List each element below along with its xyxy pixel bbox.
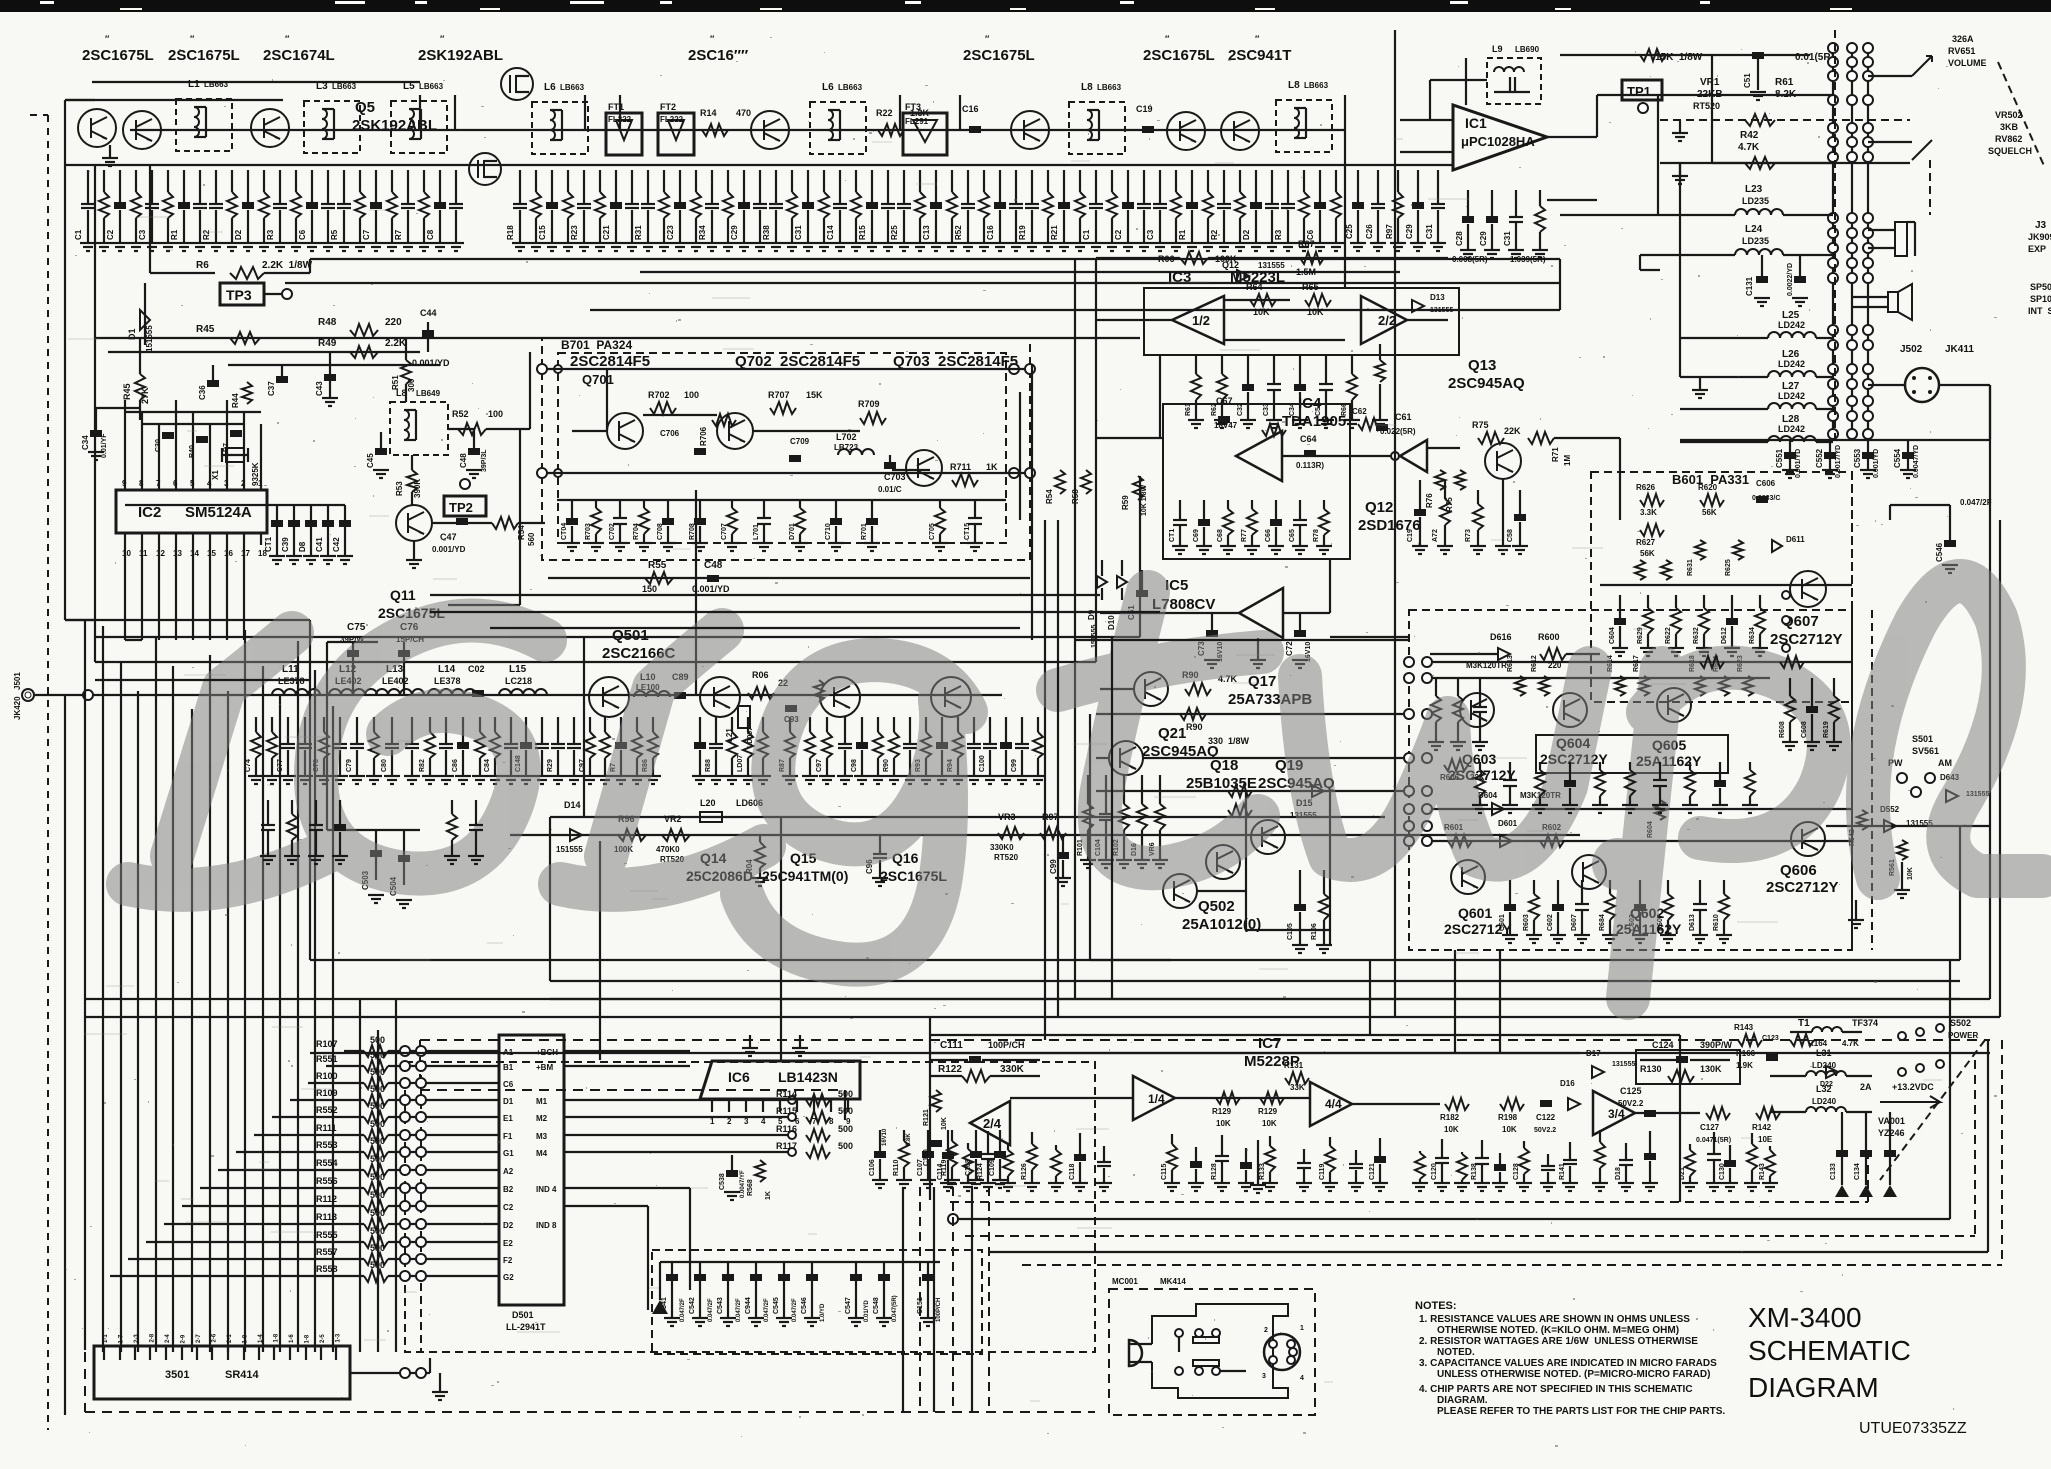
svg-text:R18: R18 (506, 225, 515, 240)
svg-text:2: 2 (1264, 1327, 1268, 1334)
svg-text:Q701: Q701 (582, 372, 614, 387)
svg-text:2-1: 2-1 (227, 1334, 233, 1343)
svg-text:330K: 330K (1000, 1064, 1025, 1075)
svg-text:R22: R22 (876, 108, 893, 118)
svg-text:0.047/2F: 0.047/2F (736, 1298, 742, 1322)
svg-text:C14: C14 (826, 225, 835, 240)
svg-text:2-4: 2-4 (165, 1334, 171, 1343)
svg-text:R107: R107 (316, 1039, 338, 1049)
svg-text:1-6: 1-6 (289, 1334, 295, 1343)
svg-text:R133: R133 (1259, 1163, 1266, 1180)
svg-text:1-8: 1-8 (305, 1334, 311, 1343)
svg-text:C66: C66 (1265, 529, 1272, 542)
svg-text:C2: C2 (106, 229, 115, 240)
svg-text:C100: C100 (979, 755, 986, 772)
svg-text:0.0022/YD: 0.0022/YD (1787, 263, 1794, 296)
svg-text:2-6: 2-6 (212, 1333, 218, 1342)
svg-text:470: 470 (736, 108, 751, 118)
svg-text:C31: C31 (1425, 224, 1434, 239)
svg-text:JK909: JK909 (2028, 232, 2051, 242)
svg-text:0.008(5R): 0.008(5R) (1452, 255, 1488, 264)
svg-text:2-7: 2-7 (196, 1334, 202, 1343)
svg-text:C02: C02 (468, 664, 485, 674)
svg-text:R622: R622 (1665, 627, 1672, 644)
svg-text:VA001: VA001 (1878, 1116, 1905, 1126)
svg-text:0.047(5R): 0.047(5R) (892, 1295, 898, 1322)
svg-text:LB663: LB663 (838, 83, 863, 92)
svg-text:R128: R128 (1211, 1163, 1218, 1180)
svg-text:10K: 10K (1502, 1125, 1517, 1134)
svg-text:R551: R551 (316, 1054, 338, 1064)
svg-text:2SK192ABL: 2SK192ABL (418, 47, 503, 64)
svg-text:VOLUME: VOLUME (1948, 58, 1987, 68)
svg-text:326A: 326A (1952, 34, 1974, 44)
svg-text:EXP SP: EXP SP (2028, 244, 2051, 254)
svg-text:R25: R25 (890, 225, 899, 240)
svg-text:R553: R553 (316, 1140, 338, 1150)
svg-text:Q501: Q501 (612, 627, 649, 644)
svg-text:″: ″ (710, 34, 715, 44)
svg-text:0.0047/YD: 0.0047/YD (1913, 445, 1920, 478)
svg-text:R54: R54 (517, 525, 526, 540)
svg-text:R42: R42 (1740, 130, 1759, 141)
svg-text:IC3: IC3 (1168, 269, 1191, 286)
svg-text:22K: 22K (1504, 426, 1521, 436)
svg-text:L6: L6 (822, 82, 834, 93)
svg-text:R620: R620 (1698, 483, 1718, 492)
svg-text:L15: L15 (509, 664, 527, 675)
svg-text:1K: 1K (986, 462, 998, 472)
svg-text:R3: R3 (266, 229, 275, 240)
svg-text:100: 100 (488, 409, 503, 419)
svg-text:0.047/2F: 0.047/2F (792, 1298, 798, 1322)
svg-text:C710: C710 (825, 523, 832, 540)
svg-text:100P/CH: 100P/CH (988, 1040, 1025, 1050)
svg-text:R626: R626 (1636, 483, 1656, 492)
svg-text:G1: G1 (503, 1149, 514, 1158)
svg-text:3.3K: 3.3K (1640, 508, 1657, 517)
svg-text:1-7: 1-7 (119, 1334, 125, 1343)
svg-text:D612: D612 (1721, 627, 1728, 644)
svg-text:Q606: Q606 (1780, 862, 1817, 879)
svg-text:D701: D701 (789, 523, 796, 540)
svg-text:R75: R75 (1472, 420, 1489, 430)
svg-text:R124: R124 (977, 1163, 984, 1180)
svg-text:M2: M2 (536, 1114, 548, 1123)
svg-text:R45: R45 (122, 383, 132, 400)
svg-text:F1: F1 (503, 1132, 513, 1141)
svg-text:R29: R29 (547, 759, 554, 772)
svg-text:Q18: Q18 (1210, 757, 1238, 774)
svg-text:R603: R603 (1523, 914, 1530, 931)
svg-text:C7: C7 (362, 229, 371, 240)
svg-text:C944: C944 (745, 1297, 752, 1314)
svg-text:C121: C121 (1369, 1163, 1376, 1180)
svg-text:CT15: CT15 (964, 523, 971, 540)
svg-text:C13: C13 (922, 225, 931, 240)
svg-text:R52: R52 (954, 225, 963, 240)
svg-text:17: 17 (241, 549, 250, 558)
svg-text:C105: C105 (1287, 923, 1294, 940)
svg-text:C42: C42 (332, 537, 341, 552)
svg-text:R73: R73 (1465, 529, 1472, 542)
svg-text:C97: C97 (816, 759, 823, 772)
svg-text:C45: C45 (366, 453, 375, 468)
svg-text:R557: R557 (316, 1247, 338, 1257)
svg-text:R71: R71 (1551, 447, 1560, 462)
svg-text:C84: C84 (484, 759, 491, 772)
svg-text:R1: R1 (1178, 229, 1187, 240)
svg-text:0.047/2F: 0.047/2F (1960, 498, 1992, 507)
svg-text:C133: C133 (1830, 1163, 1837, 1180)
svg-text:C31: C31 (794, 225, 803, 240)
svg-text:IC6: IC6 (728, 1069, 750, 1085)
svg-text:100P/CH: 100P/CH (936, 1298, 942, 1322)
svg-text:15K: 15K (806, 390, 823, 400)
svg-text:M4: M4 (536, 1149, 548, 1158)
svg-text:0.001/YD: 0.001/YD (1873, 449, 1880, 478)
svg-text:R138: R138 (1471, 1163, 1478, 1180)
svg-text:C120: C120 (1431, 1163, 1438, 1180)
svg-text:500: 500 (838, 1141, 853, 1151)
svg-text:C47: C47 (440, 532, 457, 542)
svg-text:D22: D22 (1820, 1081, 1833, 1088)
svg-text:C16: C16 (962, 104, 979, 114)
svg-text:IC7: IC7 (1258, 1035, 1281, 1052)
svg-text:LB1423N: LB1423N (778, 1069, 838, 1085)
svg-text:R06: R06 (752, 670, 769, 680)
svg-text:LB690: LB690 (1515, 45, 1540, 54)
svg-text:L9: L9 (1492, 44, 1503, 54)
svg-text:LD235: LD235 (1742, 236, 1769, 246)
svg-text:S502: S502 (1950, 1018, 1971, 1028)
svg-text:2A: 2A (1860, 1082, 1872, 1092)
svg-text:C131: C131 (1745, 276, 1754, 296)
svg-text:C28: C28 (1455, 231, 1464, 246)
svg-text:16V10: 16V10 (882, 1128, 888, 1146)
svg-text:R552: R552 (316, 1105, 338, 1115)
svg-text:R78: R78 (1313, 529, 1320, 542)
svg-text:LD242: LD242 (1778, 320, 1805, 330)
svg-text:2SC1675L: 2SC1675L (963, 47, 1035, 64)
svg-text:J3: J3 (2035, 220, 2047, 231)
svg-text:B701 PA324: B701 PA324 (561, 338, 632, 352)
svg-text:2. RESISTOR WATTAGES ARE 1/6W: 2. RESISTOR WATTAGES ARE 1/6W UNLESS OTH… (1419, 1336, 1698, 1347)
svg-text:R19: R19 (1018, 225, 1027, 240)
svg-text:150: 150 (642, 584, 657, 594)
svg-text:390K: 390K (413, 479, 422, 498)
svg-text:6: 6 (173, 479, 178, 488)
svg-text:1.9K: 1.9K (1736, 1061, 1753, 1070)
svg-text:R40: R40 (189, 445, 196, 458)
svg-text:D2: D2 (1242, 229, 1251, 240)
svg-text:1.039(5R): 1.039(5R) (1510, 255, 1546, 264)
svg-text:R129: R129 (1212, 1107, 1232, 1116)
svg-text:B1: B1 (503, 1063, 514, 1072)
svg-text:D616: D616 (1490, 632, 1512, 642)
svg-text:C68: C68 (1217, 529, 1224, 542)
svg-text:0.01/YF: 0.01/YF (101, 433, 108, 458)
svg-text:C69: C69 (1193, 529, 1200, 542)
svg-text:0.0047/YF: 0.0047/YF (740, 1170, 746, 1198)
svg-text:E1: E1 (503, 1114, 513, 1123)
svg-text:56K: 56K (1702, 508, 1717, 517)
svg-text:2SC1675L: 2SC1675L (168, 47, 240, 64)
svg-text:C26: C26 (1365, 224, 1374, 239)
svg-text:C23: C23 (666, 225, 675, 240)
svg-text:C125: C125 (1620, 1086, 1642, 1096)
svg-text:1-1: 1-1 (103, 1334, 109, 1343)
svg-text:C86: C86 (452, 759, 459, 772)
svg-text:IND 4: IND 4 (536, 1185, 557, 1194)
svg-text:FL222: FL222 (660, 115, 684, 124)
svg-text:LD242: LD242 (1778, 359, 1805, 369)
svg-text:D607: D607 (1571, 914, 1578, 931)
svg-text:C41: C41 (315, 537, 324, 552)
svg-text:C703: C703 (884, 472, 906, 482)
svg-text:R617: R617 (1633, 655, 1640, 672)
svg-text:4.7K: 4.7K (1842, 1039, 1859, 1048)
svg-text:S501: S501 (1912, 734, 1933, 744)
svg-text:SM5124A: SM5124A (185, 504, 252, 521)
svg-text:OTHERWISE NOTED. (K=KILO OHM.: OTHERWISE NOTED. (K=KILO OHM. M=MEG OHM) (1437, 1325, 1679, 1336)
svg-text:R48: R48 (318, 317, 337, 328)
svg-text:VR3: VR3 (998, 812, 1016, 822)
svg-text:0.047/2F: 0.047/2F (680, 1298, 686, 1322)
svg-text:3: 3 (224, 479, 229, 488)
svg-text:1-3: 1-3 (336, 1333, 342, 1342)
svg-text:2SC1675L: 2SC1675L (82, 47, 154, 64)
svg-text:C100: C100 (923, 1149, 930, 1166)
svg-text:LB663: LB663 (1304, 81, 1329, 90)
svg-text:0.001/YD: 0.001/YD (692, 584, 730, 594)
svg-text:R59: R59 (1121, 495, 1130, 510)
svg-text:4/4: 4/4 (1325, 1097, 1342, 1111)
svg-text:″: ″ (105, 34, 110, 44)
svg-text:C98: C98 (851, 759, 858, 772)
svg-text:C134: C134 (1854, 1163, 1861, 1180)
svg-text:C2: C2 (1114, 229, 1123, 240)
svg-text:6.8K: 6.8K (906, 1133, 912, 1146)
svg-text:C75: C75 (347, 622, 366, 633)
svg-text:12: 12 (156, 549, 165, 558)
svg-text:C119: C119 (1319, 1164, 1326, 1180)
svg-text:4. CHIP PARTS ARE NOT SPECIFIE: 4. CHIP PARTS ARE NOT SPECIFIED IN THIS … (1419, 1384, 1693, 1395)
svg-text:56K: 56K (1640, 549, 1655, 558)
svg-text:CT04: CT04 (561, 523, 568, 540)
svg-text:TP1: TP1 (1627, 84, 1651, 99)
svg-text:R632: R632 (1693, 627, 1700, 644)
svg-text:1/4: 1/4 (1148, 1092, 1165, 1106)
svg-text:C123: C123 (1762, 1035, 1779, 1042)
svg-text:R97: R97 (1385, 224, 1394, 239)
svg-text:2SC16″″: 2SC16″″ (688, 47, 748, 64)
svg-text:LD242: LD242 (1778, 391, 1805, 401)
svg-text:L3: L3 (316, 81, 328, 92)
svg-text:LD07: LD07 (737, 755, 744, 772)
svg-text:C61: C61 (1395, 412, 1412, 422)
svg-text:J502: J502 (1900, 344, 1923, 355)
svg-text:″: ″ (285, 34, 290, 44)
svg-text:C65: C65 (1289, 529, 1296, 542)
svg-text:SP501: SP501 (2030, 282, 2051, 292)
svg-text:4: 4 (761, 1117, 766, 1126)
svg-text:2SC2712Y: 2SC2712Y (1766, 879, 1839, 896)
svg-text:2/2: 2/2 (1378, 313, 1396, 328)
svg-text:C34: C34 (81, 435, 90, 450)
svg-text:2SC1674L: 2SC1674L (263, 47, 335, 64)
svg-text:R608: R608 (1779, 721, 1786, 738)
svg-text:RV862: RV862 (1995, 134, 2022, 144)
svg-text:1: 1 (1300, 1325, 1304, 1332)
svg-text:7: 7 (812, 1117, 817, 1126)
svg-text:LB663: LB663 (560, 83, 585, 92)
svg-text:A2: A2 (503, 1167, 514, 1176)
svg-text:R121: R121 (923, 1109, 930, 1126)
svg-text:C25: C25 (1345, 224, 1354, 239)
svg-text:SQUELCH: SQUELCH (1988, 146, 2032, 156)
svg-text:″: ″ (1255, 34, 1260, 44)
svg-text:C551: C551 (1775, 448, 1784, 468)
svg-text:C127: C127 (1700, 1123, 1720, 1132)
svg-text:0.0017/YD: 0.0017/YD (1835, 445, 1842, 478)
svg-text:MK414: MK414 (1160, 1277, 1186, 1286)
svg-text:C48: C48 (704, 560, 723, 571)
svg-text:C51: C51 (1743, 73, 1752, 88)
svg-text:C37: C37 (267, 381, 276, 396)
svg-text:C130: C130 (1719, 1163, 1726, 1180)
svg-text:R55: R55 (648, 560, 667, 571)
svg-text:C706: C706 (660, 429, 680, 438)
svg-text:R2: R2 (202, 229, 211, 240)
svg-text:C16: C16 (986, 225, 995, 240)
svg-text:CT1: CT1 (264, 536, 273, 552)
svg-text:LB649: LB649 (416, 389, 441, 398)
svg-text:R704: R704 (633, 523, 640, 540)
svg-text:D13: D13 (1430, 293, 1445, 302)
svg-text:C606: C606 (1756, 479, 1776, 488)
svg-text:25C941TM(0): 25C941TM(0) (762, 868, 848, 884)
svg-text:16: 16 (224, 549, 233, 558)
svg-text:1.5M: 1.5M (1296, 267, 1316, 277)
svg-text:C106: C106 (869, 1159, 876, 1176)
svg-text:1. RESISTANCE VALUES ARE SHOWN: 1. RESISTANCE VALUES ARE SHOWN IN OHMS U… (1419, 1314, 1690, 1325)
svg-text:JK420: JK420 (13, 696, 22, 720)
svg-text:R129: R129 (1258, 1107, 1278, 1116)
svg-text:R619: R619 (1823, 721, 1830, 738)
svg-text:0.022(5R): 0.022(5R) (1380, 427, 1416, 436)
svg-text:M3: M3 (536, 1132, 548, 1141)
svg-text:C707: C707 (721, 523, 728, 540)
svg-text:R684: R684 (1599, 914, 1606, 931)
svg-text:LL-2941T: LL-2941T (506, 1322, 546, 1332)
svg-text:9: 9 (122, 479, 127, 488)
svg-text:R88: R88 (705, 759, 712, 772)
svg-text:15: 15 (207, 549, 216, 558)
svg-text:C1: C1 (1082, 229, 1091, 240)
svg-text:R106: R106 (1311, 923, 1318, 940)
svg-text:F2: F2 (503, 1256, 513, 1265)
svg-text:27K: 27K (140, 387, 150, 404)
svg-text:0.0033/C: 0.0033/C (1752, 495, 1780, 502)
svg-text:R198: R198 (1498, 1113, 1518, 1122)
svg-text:R14: R14 (700, 108, 717, 118)
svg-text:D2: D2 (503, 1221, 514, 1230)
svg-text:3: 3 (1262, 1373, 1266, 1380)
svg-text:390P/W: 390P/W (1700, 1040, 1733, 1050)
svg-text:2-9: 2-9 (181, 1334, 187, 1343)
svg-text:D10: D10 (1107, 615, 1116, 630)
svg-text:TP2: TP2 (449, 500, 473, 515)
svg-text:2SC1675L: 2SC1675L (1143, 47, 1215, 64)
svg-text:R711: R711 (950, 462, 971, 472)
svg-text:R143: R143 (1759, 1163, 1766, 1180)
svg-text:C118: C118 (1069, 1164, 1076, 1180)
svg-text:C709: C709 (790, 437, 810, 446)
svg-text:Q21: Q21 (1158, 725, 1186, 742)
svg-text:C124: C124 (1652, 1040, 1674, 1050)
svg-text:2SC2712Y: 2SC2712Y (1770, 631, 1843, 648)
svg-text:FL291: FL291 (905, 117, 929, 126)
svg-text:TF374: TF374 (1852, 1018, 1878, 1028)
svg-text:R5: R5 (330, 229, 339, 240)
svg-text:D18: D18 (1615, 1167, 1622, 1180)
svg-text:TDA1905: TDA1905 (1282, 413, 1346, 430)
svg-text:5: 5 (778, 1117, 783, 1126)
svg-text:R556: R556 (316, 1176, 338, 1186)
svg-text:D613: D613 (1689, 914, 1696, 931)
svg-text:Q502: Q502 (1198, 898, 1235, 915)
svg-text:″: ″ (985, 34, 990, 44)
svg-text:C702: C702 (609, 523, 616, 540)
svg-text:R709: R709 (858, 399, 880, 409)
svg-text:AM: AM (1938, 758, 1952, 768)
svg-text:LD242: LD242 (1778, 424, 1805, 434)
svg-text:R627: R627 (1636, 538, 1656, 547)
svg-text:C99: C99 (1049, 859, 1058, 874)
svg-text:R613: R613 (1507, 655, 1514, 672)
svg-text:R64: R64 (1246, 282, 1263, 292)
svg-text:D9: D9 (1087, 609, 1096, 620)
svg-text:D2: D2 (234, 229, 243, 240)
svg-text:R182: R182 (1440, 1113, 1460, 1122)
svg-text:C3: C3 (138, 229, 147, 240)
svg-text:R706: R706 (699, 426, 708, 446)
svg-text:LD240: LD240 (1812, 1097, 1837, 1106)
svg-text:R600: R600 (1538, 632, 1560, 642)
svg-text:NOTES:: NOTES: (1415, 1300, 1457, 1312)
svg-text:C553: C553 (1853, 448, 1862, 468)
svg-text:2SC945AQ: 2SC945AQ (1448, 375, 1525, 392)
svg-text:2SC941T: 2SC941T (1228, 47, 1291, 64)
svg-text:FT1: FT1 (608, 102, 624, 112)
svg-text:C80: C80 (381, 759, 388, 772)
svg-text:R634: R634 (1749, 627, 1756, 644)
svg-text:UTUE07335ZZ: UTUE07335ZZ (1859, 1420, 1967, 1437)
svg-text:R141: R141 (1559, 1163, 1566, 1180)
svg-text:YZ246: YZ246 (1878, 1128, 1905, 1138)
svg-text:0.001/YD: 0.001/YD (412, 358, 450, 368)
svg-text:D601: D601 (1498, 819, 1518, 828)
svg-text:2.2K: 2.2K (385, 338, 407, 349)
svg-text:X1: X1 (211, 470, 220, 480)
svg-text:10K: 10K (941, 1117, 948, 1130)
svg-text:RT520: RT520 (1693, 101, 1720, 111)
svg-text:R558: R558 (316, 1264, 338, 1274)
svg-text:L1: L1 (188, 79, 200, 90)
svg-text:R15: R15 (858, 225, 867, 240)
svg-text:6: 6 (795, 1117, 800, 1126)
